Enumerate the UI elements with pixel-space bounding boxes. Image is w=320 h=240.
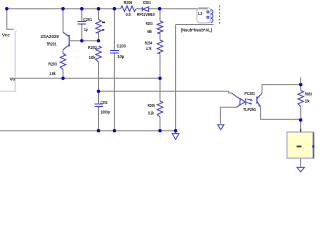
wire opto emitter xyxy=(261,107,301,119)
svg-text:R603: R603 xyxy=(305,91,312,96)
wire opto collector xyxy=(262,85,301,94)
svg-text:L3: L3 xyxy=(198,11,203,16)
junction node line1 end xyxy=(158,77,161,80)
source box inner mark xyxy=(297,146,302,148)
svg-text:R203: R203 xyxy=(146,21,153,26)
block edge (left hierarchical block outline) xyxy=(0,31,17,91)
resistor R203 right (56k) xyxy=(157,21,163,33)
wire base row xyxy=(70,40,99,42)
wire R202 bottom vertical xyxy=(98,62,100,91)
svg-text:RF01VM6S: RF01VM6S xyxy=(137,12,155,17)
wire R203 to line1 xyxy=(62,70,64,79)
wire top rail right (D201 to L3) xyxy=(149,8,208,10)
junction node D201 out xyxy=(158,7,161,10)
resistor R205 (8.2k) xyxy=(157,101,163,117)
resistor R202 (10k) xyxy=(96,46,102,62)
svg-text:R202: R202 xyxy=(88,45,97,50)
svg-text:R205: R205 xyxy=(148,103,156,108)
svg-text:R204: R204 xyxy=(145,40,153,45)
capacitor C203 (10u) xyxy=(110,50,119,54)
wire Vcc drop xyxy=(7,9,14,30)
svg-text:56k: 56k xyxy=(147,29,152,34)
resistor R603 (1k) xyxy=(298,90,304,106)
wire R203-R204 link xyxy=(159,33,161,40)
wire R205 to bottom line xyxy=(159,117,161,131)
junction node line2 start xyxy=(97,90,100,93)
junction node R603 top xyxy=(299,83,302,86)
wire R603 bottom link xyxy=(300,107,302,120)
inductor L3 coil xyxy=(207,10,213,23)
wire line1 Vo xyxy=(15,77,160,79)
ground source box xyxy=(297,167,304,171)
source box right accent xyxy=(313,133,315,159)
svg-text:8.2k: 8.2k xyxy=(148,111,154,116)
source box side pin xyxy=(312,145,314,147)
wire C203 vertical xyxy=(113,9,115,131)
svg-text:0.5: 0.5 xyxy=(126,12,131,17)
wire top rail mid (R206 to D201) xyxy=(136,8,142,10)
resistor R206 (0.5, horizontal) xyxy=(121,6,137,12)
svg-text:C202: C202 xyxy=(101,100,108,105)
wire R201 vertical xyxy=(98,9,100,41)
inductor L3 body box xyxy=(197,8,211,23)
resistor R201 (top mid) xyxy=(96,20,102,34)
resistor R204 (4.7k) xyxy=(157,40,163,53)
svg-text:Vcc: Vcc xyxy=(2,32,10,37)
wire line2 xyxy=(99,91,232,93)
wire top rail left xyxy=(7,8,121,10)
svg-text:1µ: 1µ xyxy=(84,27,88,32)
svg-text:2SA2029: 2SA2029 xyxy=(41,34,60,39)
svg-text:4.7k: 4.7k xyxy=(146,46,152,51)
optocoupler phototransistor xyxy=(257,93,262,107)
svg-text:1000p: 1000p xyxy=(101,110,111,115)
junction node R201 rail xyxy=(97,7,100,10)
wire emitter vertical xyxy=(62,9,64,33)
svg-text:Vo: Vo xyxy=(10,77,16,82)
source box pin nub xyxy=(300,129,302,132)
svg-text:1.8k: 1.8k xyxy=(49,71,56,76)
wire R603 top link xyxy=(300,85,302,91)
wire stub above R603 xyxy=(300,78,302,85)
wire R204 to R205 xyxy=(159,53,161,101)
wire C201 vertical xyxy=(81,9,83,41)
wire right column top xyxy=(159,9,161,21)
junction node C203 rail xyxy=(113,7,116,10)
resistor R201 value marks xyxy=(102,22,105,31)
wire LED cathode to ground xyxy=(220,107,237,124)
svg-text:C201: C201 xyxy=(83,17,92,22)
wire ground stem mid-left xyxy=(175,131,177,134)
svg-text:R206: R206 xyxy=(124,0,133,5)
resistor R203 left (1.8k) xyxy=(60,54,66,70)
optocoupler arrows xyxy=(246,99,252,104)
capacitor C202 (1000p) xyxy=(94,104,103,108)
svg-text:TR201: TR201 xyxy=(46,42,57,47)
svg-text:10k: 10k xyxy=(89,55,97,60)
svg-text:1k: 1k xyxy=(305,99,310,104)
junction node emitter rail xyxy=(61,7,64,10)
junction node R203 line1 xyxy=(61,77,64,80)
source box V1 xyxy=(287,132,314,158)
wire collector to R203 xyxy=(62,50,64,54)
junction node base-C201 xyxy=(80,39,83,42)
svg-text:10µ: 10µ xyxy=(117,54,125,59)
svg-text:TLP291: TLP291 xyxy=(243,107,256,112)
junction node bottom R205 xyxy=(158,129,161,132)
svg-text:R203: R203 xyxy=(48,61,57,66)
wire L3 return column xyxy=(175,25,177,131)
capacitor C201 (1u) xyxy=(78,21,87,25)
svg-text:{Nsub*Nsub*AL}: {Nsub*Nsub*AL} xyxy=(181,27,213,32)
optocoupler PC201 LED xyxy=(231,93,246,107)
junction node top-left xyxy=(5,7,8,10)
wire bottom line xyxy=(0,130,176,132)
junction node base-R201 xyxy=(97,39,100,42)
wire to source box xyxy=(300,119,302,132)
wire source box to ground xyxy=(300,158,302,167)
junction node C201 rail xyxy=(80,7,83,10)
inductor L3 core dashed line xyxy=(219,6,221,25)
junction node R603 bottom / source top xyxy=(299,118,302,121)
ground mid-left xyxy=(172,134,179,140)
ground LED cathode xyxy=(218,125,224,130)
wire C202 vertical xyxy=(98,91,100,130)
svg-text:PC201: PC201 xyxy=(244,91,255,96)
svg-text:C203: C203 xyxy=(117,43,127,48)
diode D201 (RF01VM6S) xyxy=(142,7,148,12)
junction node bottom ground xyxy=(174,129,177,132)
junction node bottom C203 xyxy=(113,129,116,132)
transistor TR201 (2SA2029 PNP) xyxy=(63,32,69,50)
svg-text:D201: D201 xyxy=(143,0,151,5)
wire L3 bottom horizontal xyxy=(176,24,214,26)
junction node bottom C202 xyxy=(97,129,100,132)
